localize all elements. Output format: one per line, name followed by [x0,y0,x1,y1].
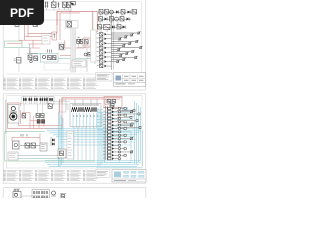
ECU pin row 5 [103,121,126,123]
fuse F1 [45,2,49,8]
svg-text:PDF: PDF [10,6,34,20]
teal box components [42,55,56,59]
fuse F2 [58,3,60,8]
sensor branch S11 [112,52,129,55]
tall connector box [67,131,74,159]
ECU pin row 11 [103,141,126,143]
sensor branch S13 [112,56,138,59]
ECU pin row 9 [103,134,126,136]
white box mid page2 [59,100,66,112]
page 2 drawing frame [7,96,143,168]
starter motor M1 [8,105,19,124]
sensor branch S14 [112,58,126,61]
sensor branch S3 [112,35,128,38]
right stack relay row 1 [97,33,112,36]
ECU pin row 4 [103,117,120,119]
ECU pin row 15 [103,154,126,156]
relay bank row 1 [98,10,137,15]
grey wires center [77,44,95,73]
pink connector outline [104,97,122,108]
relay bank feed wire (red) [93,11,98,33]
ECU pin row 14 [103,150,133,153]
ECU pin row 12 [103,144,120,146]
red return wire [19,104,63,126]
legend column 5 [67,78,82,89]
sensor branch S6 [112,42,132,45]
red loop ECU top [105,99,109,105]
sensor branch S7 [112,44,126,47]
legend column 1 [4,78,19,89]
solenoid terminal marks [73,115,98,118]
ECU pin row 8 [103,131,120,133]
right stack relay row 4 [97,46,112,49]
cyan bus horizontals [45,129,141,137]
bottom module B [84,53,91,57]
wire bottom [18,154,62,156]
under-cluster faint box [44,64,70,70]
ECU pin row 1 [103,107,126,109]
right stack relay row 2 [97,37,112,40]
relay bank row 3 [98,25,126,30]
title block page 1 [114,73,146,87]
right stack relay row 5 [97,51,112,54]
cyan ECU outline [105,132,132,163]
ECU pin row 2 [103,110,133,113]
right stack relay row 8 [97,64,112,67]
sensor branch S8 [112,46,143,49]
diode block D5 [59,43,66,50]
pressure switch [91,40,95,47]
relay K2 [63,2,67,8]
cyan stub rows upper (page 2) [97,110,137,130]
legend page 2 column 1 [4,170,19,181]
legend column 2 [19,78,34,89]
connector glyph under badge [15,23,19,26]
ECU pin row 13 [103,147,126,149]
relay K1 [52,0,57,8]
battery feed wire (red) [57,11,97,25]
red component box [52,32,57,40]
tick glyphs above alternator [21,134,27,137]
sensor box bottom [40,143,47,151]
sensor branch S10 [112,50,135,53]
relay K5 cluster [27,50,38,63]
legend page 2 column 6 [83,170,98,181]
middle grey box [42,34,50,45]
relay K3 [67,2,71,8]
green wire bottom rectangle [5,132,95,162]
red relay box [83,38,91,46]
ECU pin row 6 [103,124,133,127]
legend page 2 column 2 [19,170,34,181]
breaker box right [48,97,54,104]
cyan bus right verticals [98,108,104,166]
glow relay cluster [22,114,45,124]
connector arrow P1 [71,2,76,13]
legend page 2 column 4 [51,170,66,181]
bottom module A [72,60,86,67]
page 3 small marks [60,194,66,199]
solenoid return wires [74,127,94,161]
page 1 sheet [3,0,146,90]
sensor branch S5 [112,40,139,43]
legend page 2 column 3 [35,170,50,181]
right stack relay row 3 [97,42,112,45]
notes box [96,73,113,82]
page 3 fuse box [32,190,50,199]
right stack relay row 7 [97,60,112,63]
green terminal box [5,41,23,48]
battery cable (red) page 2 [8,99,63,129]
sensor branch S2 [112,33,134,36]
red branch to relay box [60,13,85,48]
page 2 sheet [3,94,146,183]
page 3 wire [21,195,32,197]
solenoid valve box [70,99,101,127]
ECU right branch wires [117,110,141,129]
diode pair bottom [51,137,55,146]
legend column 4 [51,78,66,89]
right harness duct [91,12,97,62]
red wires bottom left [12,133,40,143]
red wire in terminal box [7,42,22,44]
breaker row box [22,97,48,105]
page 3 component cluster [13,189,21,198]
X-component box [66,21,79,29]
connector glyph 2 under badge [33,23,38,27]
PDF badge [0,0,44,25]
legend column 6 [83,78,98,89]
relay pair bottom [20,143,40,148]
red wires relay cluster [22,113,44,129]
cyan chip below pink box [123,108,128,111]
alternator G1 [13,141,20,149]
center relay group [77,37,83,43]
ECU pin row 16 [103,157,120,159]
relay bank row 2 [98,17,131,22]
page 3 sheet [3,188,146,202]
aux relay glyph [48,104,52,109]
sensor branch S9 [112,48,121,51]
ECU connector rail [106,106,108,160]
cyan bus far right verticals [135,101,141,164]
harness bundle center [71,28,76,72]
right bus wire [112,14,114,70]
solenoid coils L1-L4 [72,107,98,112]
cyan bus left vertical [59,112,64,167]
legend page 2 column 5 [67,170,82,181]
page 3 sensor symbol [51,191,56,196]
grey drop wire left [18,27,20,58]
relay bank drop wires [100,14,122,32]
relays top right (page 2) [107,100,116,108]
tick cluster above teal box [48,50,52,53]
ECU pin row 10 [103,137,133,140]
notes box page 2 [96,170,110,178]
title block page 2 [112,170,146,183]
page 1 drawing frame [7,2,142,74]
red harness wires left [19,11,57,54]
sensor branch S15 [112,60,120,63]
ECU pin row 7 [103,127,126,129]
cyan bus bottom horizontals [45,161,141,167]
right stack relay row 6 [97,55,112,58]
red wire mid [60,50,75,56]
sensor branch S12 [112,54,123,57]
left lower sensor glyph [14,58,22,73]
green wire left (page 2) [5,100,7,133]
control box bottom [58,149,66,158]
sensor branch S4 [112,37,122,40]
wire harness box J1 [44,8,70,20]
green wire bus [22,44,41,53]
ECU pin row 3 [103,114,126,116]
solenoid leads (cyan) [73,113,97,128]
wires breaker row to relays [24,104,43,114]
legend column 3 [35,78,50,89]
cyan right edge loop [96,130,143,168]
junction box bottom left [8,152,18,160]
red feed wire top (page 2) [62,97,122,104]
cyan mid horizontals [60,140,136,146]
sensor branch S1 [112,31,141,34]
teal loop [41,53,96,64]
wires fusebox to solenoid box [50,102,70,111]
